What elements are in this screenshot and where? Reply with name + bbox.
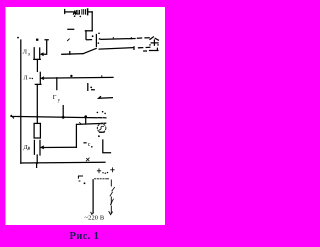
feed wire tick [69, 52, 71, 55]
switch arm upper blade [85, 31, 87, 39]
lamp L1 base [35, 83, 41, 85]
neon lamp dotted circle [97, 124, 106, 133]
stray tick [68, 39, 70, 41]
diode D1 plates [34, 140, 40, 155]
main bus dashes [98, 117, 106, 119]
main bus wire [11, 115, 97, 118]
svg-text:з: з [28, 52, 30, 58]
wire down right side [91, 12, 93, 31]
neon lamp dot [98, 135, 100, 137]
wire from element to right corner [89, 11, 93, 13]
pivot dot upper right [98, 33, 100, 35]
indicator lamp HL1 base line [150, 48, 159, 50]
switch lower feed wire [62, 53, 83, 56]
svg-text:Г: Г [53, 94, 57, 101]
wire diode to neon branch [42, 146, 77, 148]
switch lower blade [83, 48, 96, 53]
wire B dashes [139, 46, 150, 49]
node dot top-left [17, 37, 19, 39]
bottom bus wire [21, 161, 105, 164]
diode D1 arrow [41, 146, 44, 149]
lamp L1 electrode bar [39, 72, 41, 84]
junction blob [62, 116, 65, 119]
indicator lamp HL1 side dots [149, 44, 151, 46]
lamp L3 anode wire cap [43, 40, 48, 55]
faded wire dash [68, 28, 74, 30]
x tick above bottom bus [86, 158, 89, 161]
indicator lamp HL1 base dash [144, 50, 147, 52]
white schematic paper [6, 7, 166, 225]
power cord twist ticks [110, 187, 115, 205]
short wire segment right [99, 97, 113, 99]
svg-text:с: с [88, 142, 91, 148]
junction dot on anode wire [70, 75, 72, 77]
stub to neon branch [85, 118, 87, 124]
lamp L3 grid dot [36, 39, 38, 41]
wire to vibrator element [65, 11, 74, 13]
junction dot on bus [84, 115, 87, 118]
wire L3 down [36, 59, 38, 71]
vibrator element B1 dots [74, 15, 76, 17]
indicator lamp HL1 cross [151, 40, 158, 45]
wire bus to resistor [36, 118, 38, 124]
svg-text:~220 В: ~220 В [85, 215, 105, 222]
pivot dot left [92, 35, 94, 37]
neon branch dashes [101, 122, 106, 124]
wire diode to bus [36, 155, 38, 163]
capacitor label dots [83, 142, 85, 144]
indicator lamp HL1 top arcs [150, 37, 158, 40]
anode long wire [44, 76, 113, 79]
plug marks dots [102, 172, 103, 173]
dust dots cluster [97, 112, 99, 114]
lamp L3 electrodes [34, 48, 41, 60]
neon lamp base dash [100, 131, 105, 133]
lamp L1 arrow [41, 77, 44, 80]
power cord top dotted edge [95, 178, 109, 180]
neon branch top wire [77, 123, 99, 126]
pivot dot lower right [98, 42, 100, 44]
vibrator element B1 coil bumps [76, 10, 79, 14]
svg-text:Д: Д [24, 145, 28, 151]
wire B end tick [133, 47, 135, 50]
power cord left arrow [91, 212, 94, 214]
stub below bus [36, 163, 38, 167]
L wire to cord [103, 140, 111, 153]
plug marks plus right [111, 168, 115, 172]
label b glyph [88, 84, 94, 91]
wire B to lamp [99, 48, 133, 50]
wire A ticks [113, 37, 131, 39]
label G (F.) [78, 176, 83, 181]
neon lamp inner curve [99, 126, 103, 130]
power cord right conductor dashed [110, 180, 112, 213]
power cord right arrow [109, 212, 113, 215]
magenta frame background [0, 0, 173, 247]
wire A dashes [137, 37, 149, 39]
switch pivot bar [95, 35, 97, 47]
left bus wire [20, 40, 22, 163]
svg-text:Рис. 1: Рис. 1 [70, 231, 100, 242]
neon branch down wire [75, 124, 77, 147]
vibrator element B1 end bar [87, 9, 89, 15]
wire L1 down to bus [36, 84, 38, 117]
vibrator element B1 plates [82, 10, 86, 15]
lamp L3 cathode arrow [41, 53, 44, 56]
switch linkage dashes [87, 39, 92, 41]
transformer T lead upper [56, 78, 58, 90]
resistor R1 body [34, 123, 40, 138]
vibrator element B1 zigzag [74, 11, 77, 14]
power cord left conductor [92, 180, 94, 213]
wire corner to switch arm [85, 30, 92, 32]
wire A to lamp [99, 38, 135, 41]
wire input terminal tick [64, 10, 66, 14]
transformer T lead lower [62, 106, 64, 118]
svg-text:Л: Л [24, 76, 28, 82]
noise tick on branch wire [80, 123, 82, 125]
plug marks plus left [97, 169, 101, 173]
tick on anode wire right [101, 76, 103, 78]
